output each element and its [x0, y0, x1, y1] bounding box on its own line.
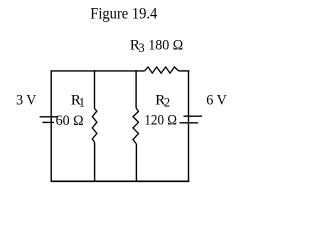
label value 180 ohm — [148, 38, 183, 54]
svg-text:60 Ω: 60 Ω — [56, 113, 84, 129]
label R2 — [155, 92, 170, 109]
wire top left segment — [51, 70, 145, 72]
wire left vertical — [50, 70, 52, 182]
battery V2 6V upper plate — [184, 115, 203, 117]
resistor R3 — [145, 67, 179, 73]
battery V2 6V lower plate — [180, 122, 199, 124]
label R3 — [130, 38, 145, 55]
wire bottom — [51, 180, 190, 182]
wire R1 branch bottom stub — [94, 143, 96, 183]
wire right vertical — [188, 70, 190, 182]
label value 60 ohm — [56, 113, 84, 129]
svg-text:3: 3 — [138, 41, 144, 55]
svg-text:120 Ω: 120 Ω — [144, 113, 177, 129]
resistor R1 — [92, 109, 97, 143]
wire R2 branch bottom stub — [135, 144, 137, 182]
resistor R2 — [133, 108, 139, 144]
label 6 V — [206, 92, 227, 108]
wire R2 branch top stub — [135, 70, 137, 108]
wire R1 branch top stub — [94, 70, 96, 108]
label R1 — [71, 92, 85, 109]
label value 120 ohm — [144, 113, 177, 129]
title Figure 19.4 — [90, 6, 157, 23]
svg-text:6 V: 6 V — [206, 92, 227, 108]
svg-text:Figure 19.4: Figure 19.4 — [90, 6, 157, 23]
wire top right segment — [179, 70, 190, 72]
svg-text:180 Ω: 180 Ω — [148, 38, 183, 54]
label 3 V — [16, 92, 36, 108]
battery V1 3V long plate — [40, 116, 58, 118]
svg-text:2: 2 — [164, 96, 170, 110]
battery V1 3V short plate — [42, 121, 54, 123]
svg-text:1: 1 — [79, 96, 85, 110]
svg-text:3 V: 3 V — [16, 92, 36, 108]
